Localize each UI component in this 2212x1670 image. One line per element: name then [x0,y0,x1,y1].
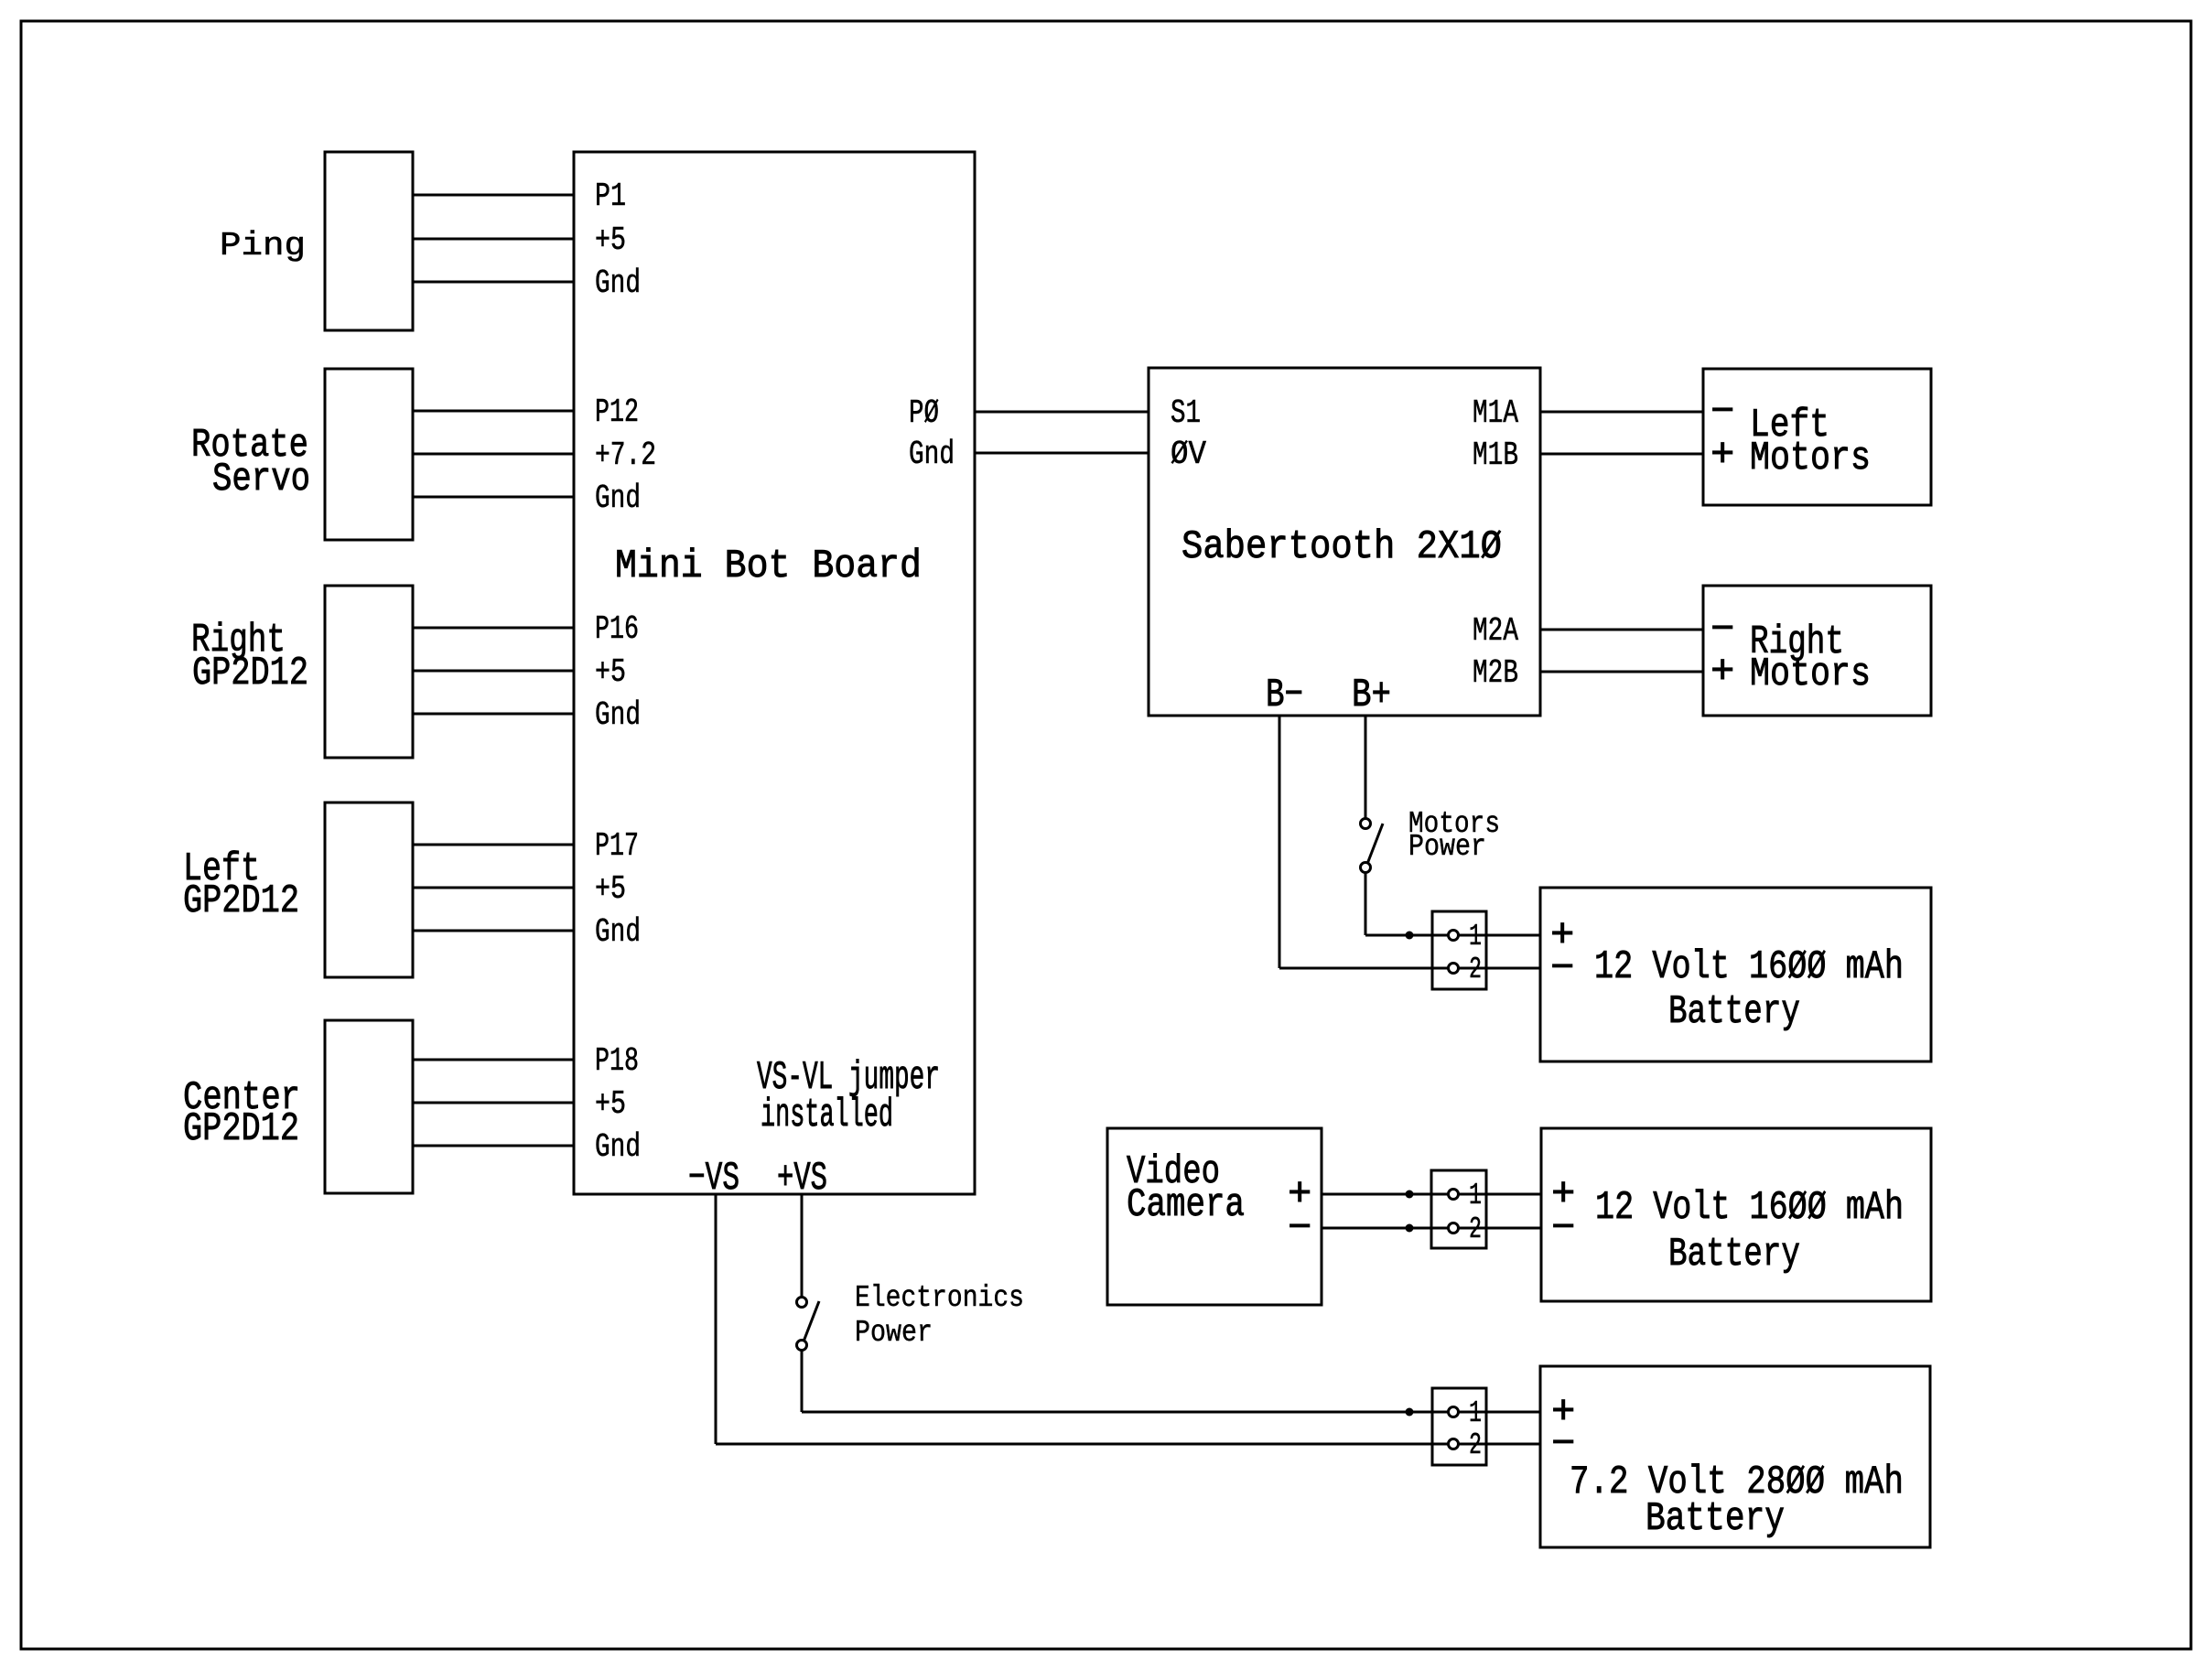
svg-text:installed: installed [761,1093,893,1138]
svg-text:Gnd: Gnd [595,479,641,517]
svg-text:Gnd: Gnd [595,913,641,951]
svg-text:Electronics: Electronics [855,1281,1024,1315]
svg-text:P16: P16 [595,610,639,648]
svg-text:−: − [1710,390,1734,436]
svg-text:Motors: Motors [1750,436,1871,481]
svg-text:1: 1 [1469,1179,1482,1212]
svg-text:−: − [1288,1206,1311,1252]
svg-text:GP2D12: GP2D12 [183,878,299,924]
svg-text:2: 2 [1469,1428,1482,1462]
svg-text:+VS: +VS [777,1156,827,1201]
svg-text:+: + [1710,433,1734,479]
svg-text:−: − [1710,608,1734,653]
svg-text:B−: B− [1266,673,1303,718]
svg-text:−: − [1551,1422,1575,1468]
svg-text:Gnd: Gnd [909,436,955,473]
svg-text:Mini Bot Board: Mini Bot Board [615,544,922,589]
svg-text:PØ: PØ [909,394,939,432]
svg-text:Battery: Battery [1668,989,1800,1035]
svg-text:+5: +5 [595,1085,626,1123]
svg-text:−: − [1550,946,1574,992]
svg-text:1: 1 [1469,1396,1482,1430]
svg-text:P18: P18 [595,1042,639,1080]
svg-text:+5: +5 [595,653,626,691]
svg-text:M1A: M1A [1473,394,1518,432]
svg-text:Gnd: Gnd [595,264,641,302]
svg-text:Motors: Motors [1750,652,1871,697]
svg-text:P12: P12 [595,393,639,431]
svg-text:Camera: Camera [1127,1182,1245,1228]
svg-text:P1: P1 [595,178,626,215]
svg-text:Servo: Servo [212,457,310,502]
svg-text:Power: Power [855,1316,933,1350]
svg-text:Sabertooth 2X1Ø: Sabertooth 2X1Ø [1182,524,1502,570]
svg-text:S1: S1 [1171,394,1201,432]
svg-text:Power: Power [1408,830,1486,864]
svg-text:2: 2 [1469,1212,1482,1246]
svg-text:GP2D12: GP2D12 [183,1106,299,1152]
svg-text:ØV: ØV [1171,436,1206,473]
svg-text:−: − [1551,1206,1575,1252]
svg-text:2: 2 [1469,953,1482,986]
svg-text:12 Volt 16ØØ mAh: 12 Volt 16ØØ mAh [1594,944,1904,990]
svg-text:+7.2: +7.2 [595,436,656,474]
svg-text:Ping: Ping [220,227,306,264]
svg-text:Gnd: Gnd [595,696,641,734]
svg-text:Gnd: Gnd [595,1128,641,1166]
svg-text:1: 1 [1469,920,1482,954]
svg-text:+: + [1710,650,1734,695]
svg-text:+5: +5 [595,221,626,259]
svg-text:M2A: M2A [1473,612,1518,650]
svg-text:B+: B+ [1352,673,1391,718]
svg-text:M1B: M1B [1473,436,1518,474]
svg-text:M2B: M2B [1473,654,1518,692]
svg-text:12 Volt 16ØØ mAh: 12 Volt 16ØØ mAh [1595,1185,1904,1231]
svg-text:+5: +5 [595,870,626,908]
svg-text:−VS: −VS [688,1156,739,1201]
svg-text:GP2D12: GP2D12 [192,651,308,696]
svg-text:Battery: Battery [1668,1232,1800,1277]
svg-text:P17: P17 [595,827,639,865]
svg-text:Battery: Battery [1646,1496,1785,1542]
